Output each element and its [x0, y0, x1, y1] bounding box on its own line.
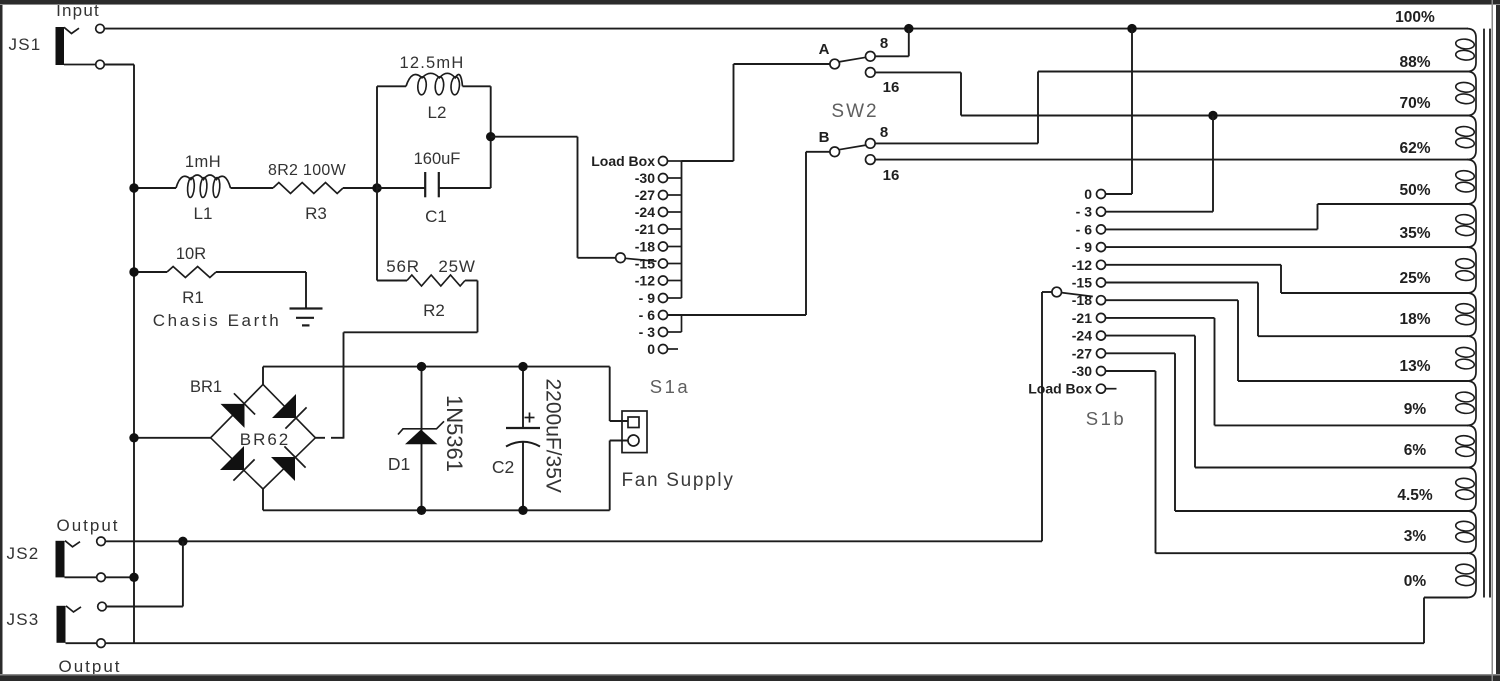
svg-text:70%: 70% — [1399, 95, 1430, 112]
svg-text:2200uF/35V: 2200uF/35V — [542, 378, 565, 492]
svg-text:-24: -24 — [1072, 328, 1092, 344]
svg-text:4.5%: 4.5% — [1397, 487, 1433, 504]
svg-text:- 9: - 9 — [639, 290, 656, 306]
svg-text:-21: -21 — [635, 221, 655, 237]
svg-text:88%: 88% — [1399, 54, 1430, 71]
svg-text:S1a: S1a — [650, 376, 690, 397]
svg-text:Output: Output — [58, 657, 121, 676]
svg-text:Chasis Earth: Chasis Earth — [153, 311, 282, 330]
svg-text:25%: 25% — [1399, 270, 1430, 287]
svg-text:-21: -21 — [1072, 310, 1092, 326]
svg-text:R1: R1 — [182, 288, 204, 307]
svg-text:Output: Output — [56, 516, 119, 535]
svg-text:-27: -27 — [1072, 345, 1092, 361]
svg-text:100%: 100% — [1395, 9, 1435, 26]
svg-text:62%: 62% — [1399, 140, 1430, 157]
svg-text:8: 8 — [880, 124, 888, 141]
svg-text:8R2 100W: 8R2 100W — [268, 162, 347, 179]
svg-text:S1b: S1b — [1086, 408, 1126, 429]
svg-text:R2: R2 — [423, 301, 445, 320]
svg-text:-30: -30 — [635, 170, 655, 186]
svg-text:- 9: - 9 — [1076, 239, 1093, 255]
svg-text:BR62: BR62 — [240, 430, 291, 449]
svg-text:SW2: SW2 — [831, 101, 878, 122]
svg-text:-18: -18 — [635, 239, 655, 255]
svg-text:1N5361: 1N5361 — [442, 395, 467, 472]
svg-text:JS3: JS3 — [7, 610, 40, 629]
svg-text:16: 16 — [883, 79, 900, 96]
svg-text:12.5mH: 12.5mH — [400, 54, 465, 72]
svg-text:C1: C1 — [425, 207, 447, 226]
svg-text:-12: -12 — [635, 273, 655, 289]
svg-text:6%: 6% — [1404, 442, 1427, 459]
svg-text:0%: 0% — [1404, 573, 1427, 590]
svg-text:L1: L1 — [194, 204, 213, 223]
svg-text:Load Box: Load Box — [591, 153, 655, 169]
svg-text:56R: 56R — [386, 257, 420, 276]
svg-text:-24: -24 — [635, 204, 655, 220]
svg-text:0: 0 — [1084, 186, 1092, 202]
svg-text:-12: -12 — [1072, 257, 1092, 273]
svg-text:-15: -15 — [1072, 275, 1092, 291]
svg-text:- 6: - 6 — [1076, 221, 1093, 237]
svg-text:- 3: - 3 — [1076, 204, 1093, 220]
svg-text:13%: 13% — [1399, 358, 1430, 375]
svg-text:-30: -30 — [1072, 363, 1092, 379]
svg-text:R3: R3 — [305, 204, 327, 223]
svg-text:0: 0 — [647, 341, 655, 357]
svg-text:35%: 35% — [1399, 225, 1430, 242]
svg-text:25W: 25W — [438, 257, 475, 276]
svg-text:18%: 18% — [1399, 311, 1430, 328]
svg-text:A: A — [819, 41, 830, 58]
svg-text:JS1: JS1 — [9, 35, 42, 54]
svg-text:3%: 3% — [1404, 528, 1427, 545]
svg-text:8: 8 — [880, 35, 888, 52]
svg-text:50%: 50% — [1399, 182, 1430, 199]
svg-text:Load Box: Load Box — [1028, 381, 1092, 397]
svg-text:L2: L2 — [428, 103, 447, 122]
svg-text:- 3: - 3 — [639, 324, 656, 340]
svg-text:D1: D1 — [388, 454, 410, 474]
svg-text:C2: C2 — [492, 457, 514, 477]
svg-text:Fan Supply: Fan Supply — [621, 470, 734, 491]
svg-text:B: B — [819, 129, 830, 146]
svg-text:BR1: BR1 — [190, 378, 222, 396]
svg-text:9%: 9% — [1404, 401, 1427, 418]
svg-text:16: 16 — [883, 167, 900, 184]
svg-text:10R: 10R — [176, 245, 206, 263]
svg-text:160uF: 160uF — [414, 150, 461, 168]
svg-text:- 6: - 6 — [639, 307, 656, 323]
svg-text:-27: -27 — [635, 187, 655, 203]
svg-text:-15: -15 — [635, 256, 655, 272]
svg-text:JS2: JS2 — [7, 544, 40, 563]
svg-text:1mH: 1mH — [185, 153, 221, 171]
